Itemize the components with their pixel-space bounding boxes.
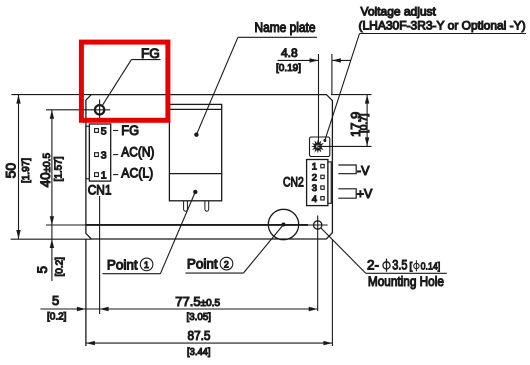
- svg-text:[1.97]: [1.97]: [21, 158, 32, 183]
- wire FG extension down: [99, 196, 101, 314]
- highlight red box: [81, 42, 167, 120]
- wire right edge extension down: [331, 239, 333, 346]
- svg-text:[0.7]: [0.7]: [359, 113, 370, 133]
- svg-text:3: 3: [312, 183, 317, 194]
- svg-text:Name plate: Name plate: [255, 20, 316, 35]
- svg-text:Voltage adjust: Voltage adjust: [361, 5, 437, 19]
- svg-text:AC(L): AC(L): [121, 165, 153, 180]
- wire FG centerline: [46, 109, 110, 111]
- wire left edge extension down: [85, 239, 87, 346]
- connector CN1: [86, 123, 154, 197]
- svg-text:(LHA30F-3R3-Y or Optional -Y): (LHA30F-3R3-Y or Optional -Y): [359, 19, 526, 33]
- svg-text:3.5: 3.5: [392, 258, 407, 273]
- svg-text:1: 1: [144, 260, 149, 270]
- name plate pin left: [184, 201, 188, 211]
- svg-text:Mounting Hole: Mounting Hole: [368, 274, 444, 289]
- svg-text:CN2: CN2: [283, 174, 304, 189]
- svg-text:[3.44]: [3.44]: [187, 347, 211, 358]
- svg-text:1: 1: [312, 162, 317, 173]
- node voltage adjust label: [325, 5, 526, 141]
- node -V: [338, 164, 370, 178]
- svg-text:Point: Point: [187, 257, 218, 272]
- dimension 5 horizontal: [40, 293, 317, 323]
- dimension 77.5±0.5: [175, 294, 317, 323]
- svg-text:5: 5: [101, 125, 107, 137]
- svg-text:Point: Point: [107, 258, 138, 273]
- svg-text:1: 1: [101, 170, 107, 182]
- svg-text:[0.2]: [0.2]: [47, 312, 67, 323]
- wire top edge left extension: [11, 94, 91, 96]
- dimension 50: [3, 95, 32, 239]
- svg-text:3: 3: [101, 150, 107, 162]
- svg-text:2-: 2-: [367, 258, 379, 273]
- svg-text:[3.05]: [3.05]: [187, 312, 212, 323]
- name plate box: [169, 104, 221, 200]
- connector CN2: [283, 160, 331, 206]
- wire bottom edge left extension: [11, 238, 92, 240]
- svg-text:-V: -V: [357, 164, 370, 178]
- body outline: [86, 95, 333, 239]
- svg-text:FG: FG: [141, 46, 160, 61]
- svg-text:0.14]: 0.14]: [421, 261, 441, 273]
- svg-text:[: [: [409, 261, 412, 273]
- mounting hole: [314, 221, 322, 229]
- dimension 4.8: [276, 46, 351, 143]
- node name plate label: [194, 20, 317, 137]
- dimension 40±0.5: [38, 110, 65, 281]
- potentiometer voltage adjust: [310, 137, 330, 157]
- dimension 87.5: [86, 328, 333, 358]
- hole big circle: [268, 209, 298, 239]
- node +V: [338, 187, 373, 201]
- dimension 5 vertical: [35, 239, 66, 277]
- name plate pin right: [205, 201, 209, 211]
- svg-text:FG: FG: [121, 123, 139, 138]
- svg-text:CN1: CN1: [88, 182, 112, 197]
- svg-text:+V: +V: [357, 187, 373, 201]
- svg-text:87.5: 87.5: [188, 328, 211, 343]
- dimension 17.9: [318, 95, 372, 147]
- svg-text:AC(N): AC(N): [121, 145, 154, 160]
- svg-text:[0.19]: [0.19]: [276, 63, 301, 74]
- svg-text:4: 4: [312, 194, 317, 205]
- svg-text:5: 5: [52, 293, 59, 308]
- svg-text:[0.2]: [0.2]: [55, 257, 66, 277]
- node Point 1: [102, 190, 197, 274]
- FG hole: [95, 105, 104, 114]
- node FG label: [103, 46, 161, 105]
- svg-text:2: 2: [312, 172, 317, 183]
- svg-text:[1.57]: [1.57]: [54, 156, 65, 181]
- svg-text:5: 5: [35, 266, 50, 274]
- wire holes centerline: [46, 224, 86, 226]
- svg-text:2: 2: [224, 259, 229, 269]
- node mounting hole label: [321, 228, 447, 289]
- node Point 2: [185, 225, 283, 274]
- svg-text:50: 50: [3, 163, 19, 179]
- svg-text:4.8: 4.8: [281, 46, 298, 60]
